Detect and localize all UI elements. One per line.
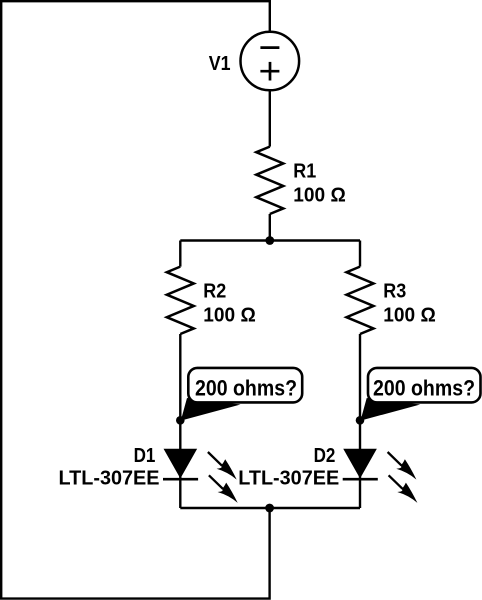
resistor R2 <box>167 267 194 334</box>
svg-text:V1: V1 <box>209 52 231 75</box>
LED D1 <box>163 449 198 479</box>
node A junction dot <box>265 236 274 245</box>
callout annotation left: 200 ohms? <box>181 368 302 421</box>
node B junction dot (left callout anchor) <box>176 416 185 425</box>
svg-text:R2: R2 <box>203 279 226 302</box>
resistor R1 <box>256 147 283 214</box>
svg-text:100 Ω: 100 Ω <box>383 303 436 326</box>
wire: V1 to R1 <box>269 90 271 146</box>
svg-text:LTL-307EE: LTL-307EE <box>238 467 339 490</box>
wire: top rail <box>180 239 360 241</box>
wire: rail to R3 <box>359 241 361 267</box>
wire: rail to R2 <box>179 241 181 267</box>
svg-text:200 ohms?: 200 ohms? <box>195 376 297 401</box>
LED D2 <box>343 449 378 479</box>
voltage source V1 <box>240 32 299 91</box>
svg-text:200 ohms?: 200 ohms? <box>373 376 475 401</box>
svg-text:R3: R3 <box>383 279 406 302</box>
LED D1 emission arrow 1 <box>208 452 237 480</box>
svg-text:LTL-307EE: LTL-307EE <box>59 467 160 490</box>
LED D2 emission arrow 1 <box>388 452 417 480</box>
node D junction dot (bottom center) <box>265 504 274 513</box>
LED D2 emission arrow 2 <box>389 475 418 503</box>
svg-text:100 Ω: 100 Ω <box>203 303 256 326</box>
svg-text:D1: D1 <box>134 444 156 467</box>
resistor R3 <box>347 267 374 334</box>
wire: bottom rail <box>180 507 360 509</box>
callout annotation right: 200 ohms? <box>361 368 481 421</box>
node C junction dot (right callout anchor) <box>356 416 365 425</box>
wire: outer loop from V1 top, left side, bottom to center riser <box>1 1 270 598</box>
wire: R1 to node A <box>269 214 271 241</box>
wire: R3 to D2 and bottom rail <box>359 334 361 508</box>
svg-text:D2: D2 <box>314 444 336 467</box>
svg-text:100 Ω: 100 Ω <box>293 183 346 206</box>
LED D1 emission arrow 2 <box>209 475 238 503</box>
svg-text:R1: R1 <box>293 159 316 182</box>
wire: R2 to D1 and bottom rail <box>179 334 181 508</box>
